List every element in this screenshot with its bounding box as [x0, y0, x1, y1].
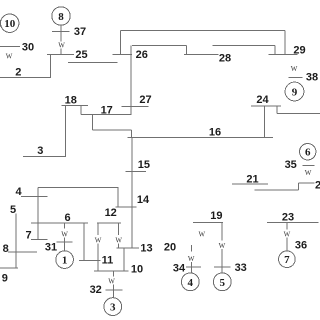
wire bus12 right down [118, 223, 120, 235]
tick 37 [52, 30, 70, 32]
svg-text:28: 28 [219, 52, 231, 64]
wire up to bus22 [298, 183, 300, 190]
bus 19 [193, 221, 223, 223]
wire vertical link 26 top [119, 30, 121, 54]
svg-text:13: 13 [140, 242, 152, 254]
svg-text:7: 7 [284, 254, 290, 266]
svg-text:5: 5 [10, 204, 16, 216]
wire bus13 to bus10 [123, 248, 125, 271]
svg-text:31: 31 [45, 242, 57, 254]
bus 17 [81, 114, 131, 116]
svg-text:W: W [58, 42, 65, 50]
wire drop to bus29 left [274, 45, 276, 54]
svg-text:3: 3 [37, 145, 43, 157]
bus 4 [21, 196, 47, 198]
wire bus12 left down [97, 223, 99, 235]
svg-text:W: W [305, 169, 312, 177]
wire bus19 right down [221, 222, 223, 240]
svg-text:10: 10 [4, 18, 16, 30]
svg-text:25: 25 [75, 49, 87, 61]
svg-text:35: 35 [285, 159, 297, 171]
wire W to bus10 [97, 243, 99, 270]
wire bus25 to bus2 [49, 54, 51, 77]
svg-text:11: 11 [102, 254, 114, 266]
svg-text:4: 4 [15, 186, 22, 198]
wire drop to bus29 right [284, 30, 286, 54]
svg-text:9: 9 [292, 87, 298, 99]
svg-text:23: 23 [282, 211, 294, 223]
wire drop to bus28 [186, 46, 188, 55]
bus 23 [267, 222, 319, 224]
svg-text:W: W [198, 230, 205, 238]
tick 33 [214, 266, 231, 268]
bus 5 vertical [15, 214, 17, 269]
bus 12 [97, 222, 121, 224]
svg-text:26: 26 [136, 49, 148, 61]
svg-text:10: 10 [131, 263, 143, 275]
svg-text:12: 12 [105, 207, 117, 219]
generator G3 [104, 298, 122, 316]
svg-text:5: 5 [220, 277, 226, 289]
generator G5 [213, 273, 231, 291]
svg-text:33: 33 [235, 262, 247, 274]
svg-text:38: 38 [306, 71, 318, 83]
tick 34 [186, 266, 201, 268]
svg-text:7: 7 [25, 229, 31, 241]
bus 16 [128, 136, 273, 138]
wire top 26-29 [120, 29, 284, 31]
bus 14 [115, 206, 136, 208]
svg-text:1: 1 [62, 255, 68, 267]
svg-text:34: 34 [173, 262, 186, 274]
svg-text:16: 16 [209, 126, 221, 138]
wire W to bus25 [60, 49, 62, 55]
svg-text:3: 3 [110, 302, 116, 314]
bus 28 [184, 54, 218, 56]
wire W to bus13 [118, 243, 120, 247]
svg-text:29: 29 [293, 44, 305, 56]
bus 13 [117, 247, 140, 249]
wire W to G4 [190, 262, 192, 273]
wire 24 to right edge [277, 112, 320, 114]
wire bus30 [0, 46, 20, 48]
wire feeder 4-14 [38, 187, 118, 189]
wire 28-29 [212, 44, 275, 46]
svg-text:27: 27 [139, 94, 151, 106]
bus 27 [122, 106, 149, 108]
svg-text:W: W [108, 278, 115, 286]
bus 26 vertical [130, 46, 132, 115]
svg-text:15: 15 [138, 159, 150, 171]
bus 24 [251, 105, 281, 107]
generator G6 [300, 144, 316, 160]
generator G4 [181, 273, 199, 291]
svg-text:W: W [6, 53, 13, 61]
svg-text:6: 6 [64, 212, 70, 224]
bus 2 [0, 76, 51, 78]
svg-text:8: 8 [58, 11, 64, 23]
svg-text:2: 2 [15, 66, 21, 78]
bus 3 [23, 156, 66, 158]
svg-text:22: 22 [315, 179, 320, 191]
bus 8 [8, 251, 37, 253]
svg-text:4: 4 [188, 277, 194, 289]
wire drop to bus16 [131, 130, 133, 137]
bus 21 [232, 183, 268, 185]
svg-text:24: 24 [256, 94, 269, 106]
svg-text:14: 14 [137, 194, 150, 206]
bus 6 [31, 222, 88, 224]
bus 18 [62, 104, 89, 106]
bus 9 [0, 267, 18, 269]
svg-text:19: 19 [210, 210, 222, 222]
bus 22 [299, 182, 315, 184]
wire bus24 step down [276, 106, 278, 114]
wire bus23 down [286, 223, 288, 230]
svg-text:30: 30 [22, 41, 34, 53]
generator G10 [0, 14, 19, 32]
bus 10 [94, 270, 129, 272]
bus 11 [79, 260, 101, 262]
wire bus18 to bus17 [80, 105, 82, 114]
svg-text:9: 9 [2, 272, 8, 284]
wire 25 lower branch [68, 62, 117, 64]
wire bus10 down [113, 271, 115, 277]
wire 26-28 [132, 45, 187, 47]
generator G7 [279, 251, 296, 268]
wire W to G7 [286, 238, 288, 251]
svg-text:W: W [61, 231, 68, 239]
wire 21-22 link [255, 189, 299, 191]
bus 7 [31, 239, 48, 241]
generator G8 [52, 7, 70, 25]
wire W to G5 [221, 249, 223, 273]
wire bus18 to bus3 [64, 105, 66, 156]
generator G1 [56, 251, 74, 269]
tick 15 [125, 171, 146, 173]
wire bus16 down to 15 14 13 [131, 137, 133, 248]
tick 31 [56, 241, 72, 243]
generator G9 [285, 82, 304, 101]
wire bus6 down to W [64, 223, 66, 229]
wire bus24 to bus16 [264, 106, 266, 137]
tick 32 [105, 289, 122, 291]
wire 17 down [92, 115, 94, 131]
svg-text:W: W [284, 231, 291, 239]
svg-text:W: W [291, 65, 298, 73]
wire bus6 to bus11 [83, 223, 85, 261]
svg-text:32: 32 [90, 284, 102, 296]
tick 35 [303, 164, 315, 166]
wire 25-26 link [113, 54, 132, 56]
wire 17 lower horizontal [93, 129, 132, 131]
bus 20 stub [190, 245, 192, 252]
svg-text:6: 6 [305, 147, 311, 159]
bus 29 [269, 54, 298, 56]
tick 38 [289, 77, 303, 79]
wire W to G1 [64, 238, 66, 251]
svg-text:18: 18 [65, 94, 77, 106]
bus 25 [47, 53, 74, 55]
wire 4-6-7 vertical [37, 188, 39, 240]
svg-text:20: 20 [164, 241, 176, 253]
wire W to G3 [113, 284, 115, 297]
svg-text:8: 8 [3, 243, 9, 255]
svg-text:37: 37 [74, 26, 86, 38]
wire G8 down [60, 25, 62, 41]
svg-text:36: 36 [295, 239, 307, 251]
wire drop to bus14 [117, 188, 119, 207]
